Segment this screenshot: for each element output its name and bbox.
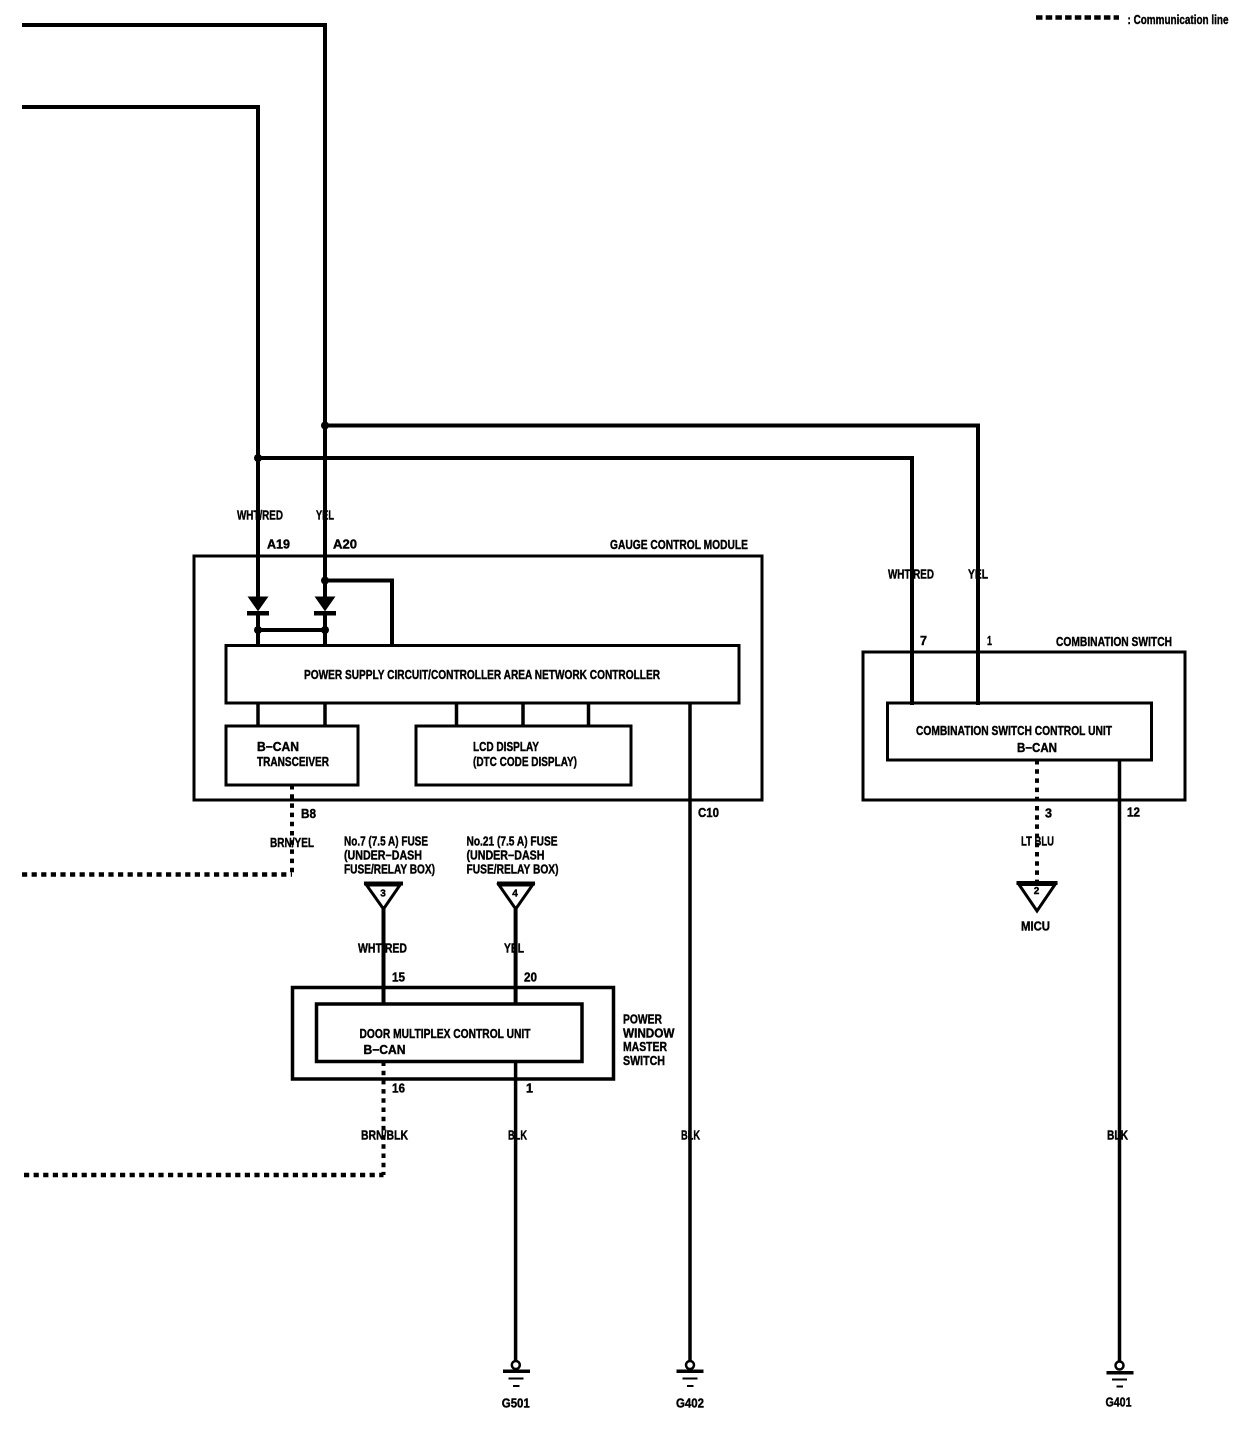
fuse No.7 connector 3 [364, 884, 403, 910]
svg-text:BRN/BLK: BRN/BLK [361, 1128, 408, 1143]
svg-text:POWER: POWER [623, 1013, 662, 1027]
wire C10 BLK to ground [688, 703, 692, 1361]
ground G402 [676, 1361, 704, 1411]
LCD display box [416, 726, 631, 785]
svg-text:12: 12 [1127, 806, 1140, 820]
svg-text:B−CAN: B−CAN [364, 1043, 406, 1057]
svg-text:4: 4 [512, 889, 518, 900]
svg-text:A20: A20 [333, 538, 357, 552]
ground G401 [1106, 1362, 1134, 1410]
wire 16 BRN/BLK communication [382, 1062, 386, 1176]
power supply circuit box U1 [226, 646, 739, 704]
wire U1 to LCD b [521, 703, 525, 726]
svg-text:(UNDER−DASH: (UNDER−DASH [467, 849, 545, 863]
svg-text:YEL: YEL [316, 508, 334, 523]
ground G501 [502, 1361, 530, 1411]
svg-text:DOOR MULTIPLEX CONTROL UNIT: DOOR MULTIPLEX CONTROL UNIT [360, 1027, 531, 1041]
wire U1 to B-CAN transceiver pin b [323, 703, 327, 726]
svg-text:COMBINATION SWITCH CONTROL UNI: COMBINATION SWITCH CONTROL UNIT [916, 724, 1112, 738]
svg-text:WINDOW: WINDOW [623, 1026, 675, 1040]
svg-text:A19: A19 [267, 538, 290, 552]
wire WHT/RED branch to combination switch [258, 458, 912, 705]
svg-text:SWITCH: SWITCH [623, 1054, 665, 1068]
connector MICU triangle 2 [1017, 883, 1058, 911]
wire communication line lower left [24, 1173, 384, 1178]
svg-text:3: 3 [1045, 807, 1052, 821]
door multiplex control unit label [360, 1027, 531, 1057]
power window master switch box [293, 988, 614, 1080]
svg-text:G402: G402 [676, 1396, 704, 1411]
svg-text:COMBINATION SWITCH: COMBINATION SWITCH [1056, 634, 1172, 649]
svg-text:7: 7 [920, 634, 927, 648]
wire 1 BLK to ground [514, 1062, 518, 1362]
fuse No.21 label [467, 835, 559, 877]
node YEL junction [321, 422, 329, 430]
svg-text:FUSE/RELAY BOX): FUSE/RELAY BOX) [467, 863, 559, 877]
svg-text:B−CAN: B−CAN [1017, 741, 1057, 755]
B-CAN transceiver label [257, 740, 329, 769]
svg-text:YEL: YEL [504, 941, 524, 956]
svg-text:3: 3 [380, 889, 386, 900]
B-CAN transceiver box [226, 726, 358, 785]
wire diode bypass branch [325, 581, 392, 647]
wire 12 BLK to ground [1118, 760, 1122, 1361]
svg-text:1: 1 [526, 1082, 533, 1096]
svg-text:MASTER: MASTER [623, 1040, 667, 1054]
svg-text:BRN/YEL: BRN/YEL [270, 835, 314, 850]
door multiplex control unit box [317, 1004, 583, 1062]
svg-text:G501: G501 [502, 1396, 530, 1411]
combination switch control unit box [888, 703, 1152, 760]
wire YEL from hot in ON and START [22, 25, 325, 580]
svg-text:2: 2 [1034, 886, 1040, 897]
combination switch control unit label [916, 724, 1112, 755]
svg-text:No.7 (7.5 A) FUSE: No.7 (7.5 A) FUSE [344, 835, 428, 849]
svg-text:FUSE/RELAY BOX): FUSE/RELAY BOX) [344, 863, 435, 877]
wire B8 BRN/YEL communication [290, 785, 294, 875]
combination switch box [863, 652, 1185, 800]
svg-text:G401: G401 [1106, 1395, 1132, 1410]
wire U1 to LCD c [587, 703, 591, 726]
svg-text:: Communication line: : Communication line [1128, 12, 1229, 27]
wire WHT/RED fuse to switch [382, 909, 386, 1004]
diode D1 [247, 556, 269, 646]
svg-text:POWER SUPPLY CIRCUIT/CONTROLLE: POWER SUPPLY CIRCUIT/CONTROLLER AREA NET… [304, 668, 660, 682]
wire YEL fuse to switch [514, 909, 518, 1004]
svg-text:WHT/RED: WHT/RED [358, 941, 407, 956]
svg-text:BLK: BLK [1107, 1128, 1128, 1143]
svg-text:WHT/RED: WHT/RED [237, 508, 283, 523]
wire WHT/RED from hot at all times [22, 107, 258, 598]
svg-text:B8: B8 [301, 807, 316, 821]
node diode D1 cathode junction [254, 626, 262, 634]
fuse No.21 connector 4 [497, 884, 535, 910]
svg-text:1: 1 [987, 634, 992, 648]
wire YEL branch to combination switch [325, 426, 978, 706]
svg-text:MICU: MICU [1021, 919, 1050, 934]
svg-text:C10: C10 [698, 806, 719, 820]
node diode D2 anode junction [321, 577, 329, 585]
svg-text:20: 20 [524, 971, 537, 985]
svg-text:LT BLU: LT BLU [1021, 834, 1054, 849]
svg-text:BLK: BLK [508, 1128, 527, 1143]
svg-text:YEL: YEL [968, 567, 988, 582]
diode D2 [314, 580, 336, 646]
svg-text:WHT/RED: WHT/RED [888, 567, 934, 582]
svg-text:LCD DISPLAY: LCD DISPLAY [473, 740, 540, 754]
svg-text:GAUGE CONTROL MODULE: GAUGE CONTROL MODULE [610, 537, 748, 552]
wire U1 to LCD a [455, 703, 459, 726]
wire communication line upper left [22, 872, 292, 877]
power window master switch label [623, 1013, 675, 1068]
svg-text:BLK: BLK [681, 1128, 700, 1143]
svg-text:No.21 (7.5 A) FUSE: No.21 (7.5 A) FUSE [467, 835, 558, 849]
wire cathode link [258, 628, 325, 632]
legend communication line sample [1036, 15, 1119, 20]
gauge control module box [194, 556, 762, 800]
svg-text:B−CAN: B−CAN [257, 740, 299, 754]
svg-text:(DTC CODE DISPLAY): (DTC CODE DISPLAY) [473, 755, 577, 769]
svg-text:15: 15 [392, 971, 405, 985]
LCD display label [473, 740, 577, 769]
svg-text:16: 16 [392, 1082, 405, 1096]
node diode D2 cathode junction [321, 626, 329, 634]
wire 3 LT BLU communication to MICU [1035, 760, 1039, 881]
wire U1 to B-CAN transceiver pin a [256, 703, 260, 726]
node WHT/RED junction [254, 454, 262, 462]
svg-text:TRANSCEIVER: TRANSCEIVER [257, 755, 329, 769]
fuse No.7 label [344, 835, 435, 877]
svg-text:(UNDER−DASH: (UNDER−DASH [344, 849, 422, 863]
